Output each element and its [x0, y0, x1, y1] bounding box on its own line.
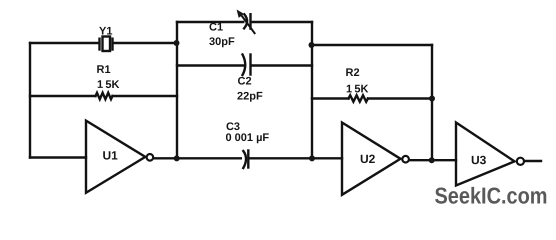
svg-text:C1: C1: [209, 21, 223, 33]
svg-text:C2: C2: [238, 75, 252, 87]
svg-text:R1: R1: [97, 64, 111, 76]
svg-text:Y1: Y1: [99, 25, 112, 37]
svg-text:1 5K: 1 5K: [97, 79, 119, 91]
svg-text:22pF: 22pF: [237, 90, 263, 102]
svg-text:0 001 µF: 0 001 µF: [225, 132, 269, 144]
svg-text:1 5K: 1 5K: [346, 83, 368, 95]
svg-text:SeekIC.com: SeekIC.com: [434, 182, 547, 208]
svg-text:R2: R2: [346, 67, 360, 79]
svg-text:U1: U1: [102, 148, 118, 162]
svg-text:U3: U3: [471, 153, 487, 167]
svg-text:30pF: 30pF: [209, 36, 235, 48]
svg-text:U2: U2: [360, 152, 376, 166]
